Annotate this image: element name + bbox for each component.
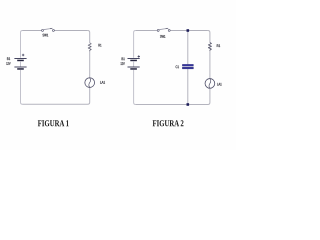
wire left branch lower (fig1): [21, 70, 23, 104]
resistor R1 (fig1) zigzag: [88, 43, 91, 51]
battery B1 (fig2) inter-cell wire: [133, 61, 135, 67]
label LA1 (fig2): [217, 83, 221, 86]
wire bottom segment (fig1): [23, 88, 90, 105]
label 12V (fig2): [121, 62, 125, 65]
wire left branch upper (fig2): [134, 31, 136, 58]
caption FIGURA 2: [153, 120, 184, 126]
label C1 (fig2): [176, 65, 179, 68]
junction node bottom (fig2): [187, 103, 190, 106]
wire right branch middle (fig2): [209, 51, 211, 79]
wire bottom segment (fig2): [136, 88, 210, 104]
capacitor C1 (fig2) bottom plate: [182, 67, 193, 69]
battery B1 (fig2) cell1 short thick plate: [130, 60, 137, 62]
wire right branch upper (fig2): [208, 31, 210, 43]
wire capacitor branch lower (fig2): [187, 69, 189, 105]
lamp LA1 (fig1) bulb circle: [85, 78, 95, 88]
battery B1 (fig1) plus sign: [22, 54, 24, 56]
capacitor C1 (fig2) top plate: [182, 64, 193, 66]
label B1 (fig1): [7, 57, 10, 60]
battery B1 (fig1) cell1 long plate: [14, 58, 26, 60]
wire top-left segment (fig1): [23, 30, 42, 32]
wire top-left segment (fig2): [136, 30, 157, 32]
battery B1 (fig1) cell2 long plate: [14, 66, 26, 68]
wire right branch middle (fig1): [89, 51, 91, 77]
label B1 (fig2): [122, 57, 125, 60]
switch SW1 (fig1) lever: [44, 28, 53, 29]
battery B1 (fig2) cell2 short thick plate: [130, 68, 137, 70]
wire top-middle segment (fig2): [170, 30, 187, 32]
lamp LA1 (fig2) bulb circle: [205, 79, 215, 89]
wire top-right segment (fig2): [188, 30, 208, 32]
switch SW1 (fig2) throw contact circle: [168, 29, 170, 31]
label SW1 (fig1): [43, 34, 49, 37]
resistor R1 (fig2) zigzag: [208, 43, 211, 51]
battery B1 (fig2) cell2 long plate: [128, 66, 140, 68]
wire right branch upper (fig1): [88, 31, 90, 43]
switch SW1 (fig2) lever: [159, 28, 168, 29]
battery B1 (fig1) cell1 short thick plate: [17, 60, 24, 62]
lamp LA1 (fig1) filament wave: [89, 78, 91, 88]
label 12V (fig1): [6, 62, 10, 65]
junction node top (fig2): [187, 29, 190, 32]
battery B1 (fig2) cell1 long plate: [128, 58, 140, 60]
battery B1 (fig1) cell2 short thick plate: [17, 68, 24, 70]
caption FIGURA 1: [38, 120, 69, 126]
lamp LA1 (fig2) filament wave: [209, 79, 211, 89]
wire left branch upper (fig1): [21, 31, 23, 58]
label R1 (fig1): [99, 44, 102, 47]
switch SW1 (fig1) pole contact circle: [42, 29, 44, 31]
switch SW1 (fig2) pole contact circle: [157, 29, 159, 31]
label SW1 (fig2): [160, 35, 165, 38]
wire top-right segment (fig1): [55, 30, 88, 32]
label R1 (fig2): [217, 44, 220, 47]
switch SW1 (fig1) throw contact circle: [52, 29, 54, 31]
wire capacitor branch upper (fig2): [187, 31, 189, 65]
battery B1 (fig2) plus sign: [138, 55, 140, 57]
wire left branch lower (fig2): [134, 70, 136, 105]
battery B1 (fig1) inter-cell wire: [20, 61, 22, 67]
label LA1 (fig1): [100, 81, 105, 84]
